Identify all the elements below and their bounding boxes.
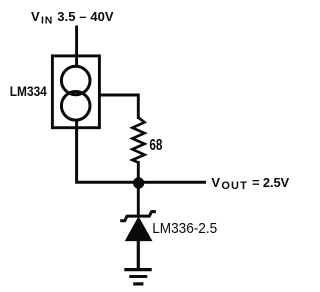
ground symbol (124, 270, 151, 284)
zener diode D1 anode triangle (126, 217, 152, 240)
current source circle top (61, 66, 90, 95)
svg-text:3.5 – 40V: 3.5 – 40V (57, 9, 114, 24)
svg-text:OUT: OUT (221, 180, 247, 192)
junction dot output node (133, 177, 144, 188)
current source circle bottom (61, 92, 90, 121)
svg-text:LM336-2.5: LM336-2.5 (152, 220, 217, 237)
node VIN label (31, 9, 114, 26)
zener diode D1 cathode bar (120, 212, 156, 221)
wire resistor bottom to junction (137, 161, 140, 183)
wire junction to zener cathode (137, 183, 140, 216)
svg-text:V: V (31, 9, 40, 24)
node VOUT label (211, 175, 289, 192)
wire zener anode to ground (137, 240, 140, 269)
wire LM334 right pin to resistor top (100, 95, 139, 119)
svg-text:IN: IN (41, 15, 52, 27)
svg-text:V: V (211, 175, 220, 190)
svg-text:68: 68 (149, 137, 162, 154)
LM334 box U1 (52, 56, 99, 128)
wire LM334 bottom to output rail (77, 120, 206, 182)
wire VIN to LM334 box (75, 26, 78, 67)
svg-text:LM334: LM334 (10, 83, 47, 99)
svg-text:= 2.5V: = 2.5V (252, 175, 290, 190)
resistor R1 68 ohm (132, 118, 144, 163)
